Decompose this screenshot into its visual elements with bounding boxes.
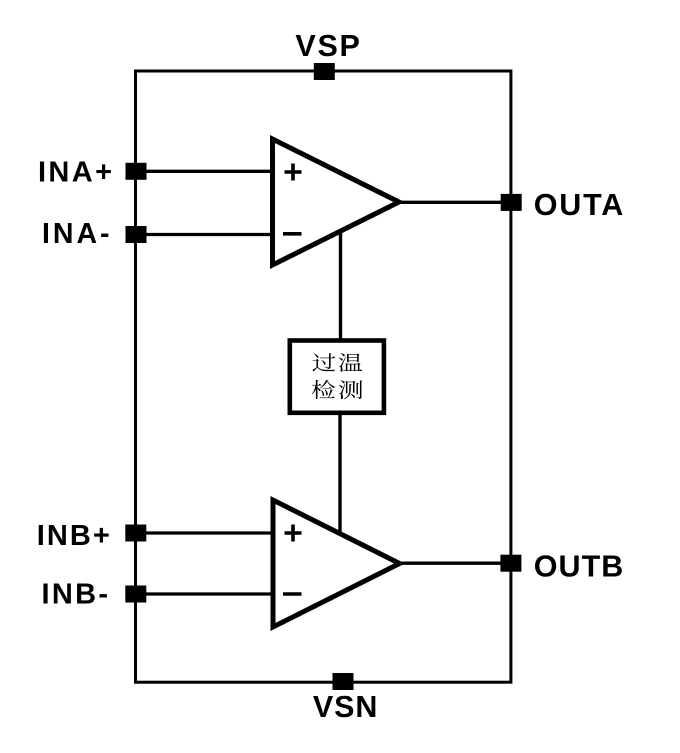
pin OUTB [500, 555, 521, 572]
svg-text:INA+: INA+ [38, 157, 112, 189]
op-amp U1 inverting input - [283, 232, 302, 236]
svg-text:INB+: INB+ [37, 520, 110, 552]
IC boundary rectangle [136, 71, 511, 682]
label 检 (detect) [312, 380, 335, 399]
label 过 (over) [312, 353, 335, 371]
svg-text:VSN: VSN [313, 690, 378, 724]
pin VSP [314, 63, 335, 80]
label 测 (measure) [339, 380, 363, 399]
wire INA- to op-amp U1 [141, 233, 274, 236]
svg-text:INB-: INB- [42, 579, 109, 611]
op-amp U2 inverting input - [283, 592, 302, 596]
op-amp U2 (channel B) [273, 500, 400, 627]
svg-text:VSP: VSP [295, 29, 360, 63]
wire op-amp U2 output to OUTB [398, 562, 506, 565]
pin OUTA [501, 194, 522, 211]
label 温 (temperature) [339, 353, 363, 371]
pin INB+ [125, 525, 146, 542]
pin INA- [126, 226, 147, 243]
pin VSN [333, 673, 354, 690]
wire INB+ to op-amp U2 [141, 531, 274, 534]
wire INA+ to op-amp U1 [141, 170, 274, 173]
svg-text:INA-: INA- [42, 218, 110, 250]
op-amp U1 (channel A) [273, 139, 400, 265]
wire op-amp U1 output to OUTA [398, 201, 506, 204]
svg-text:OUTA: OUTA [534, 188, 624, 222]
svg-text:OUTB: OUTB [534, 549, 624, 583]
op-amp U1 noninverting input + [285, 164, 302, 181]
wire over-temperature block to op-amp U2 [338, 413, 341, 535]
pin INA+ [126, 163, 147, 180]
wire op-amp U1 to over-temperature block [339, 229, 342, 341]
wire INB- to op-amp U2 [141, 592, 274, 595]
over-temperature detection block [290, 341, 384, 413]
op-amp U2 noninverting input + [285, 525, 302, 542]
pin INB- [125, 586, 146, 603]
